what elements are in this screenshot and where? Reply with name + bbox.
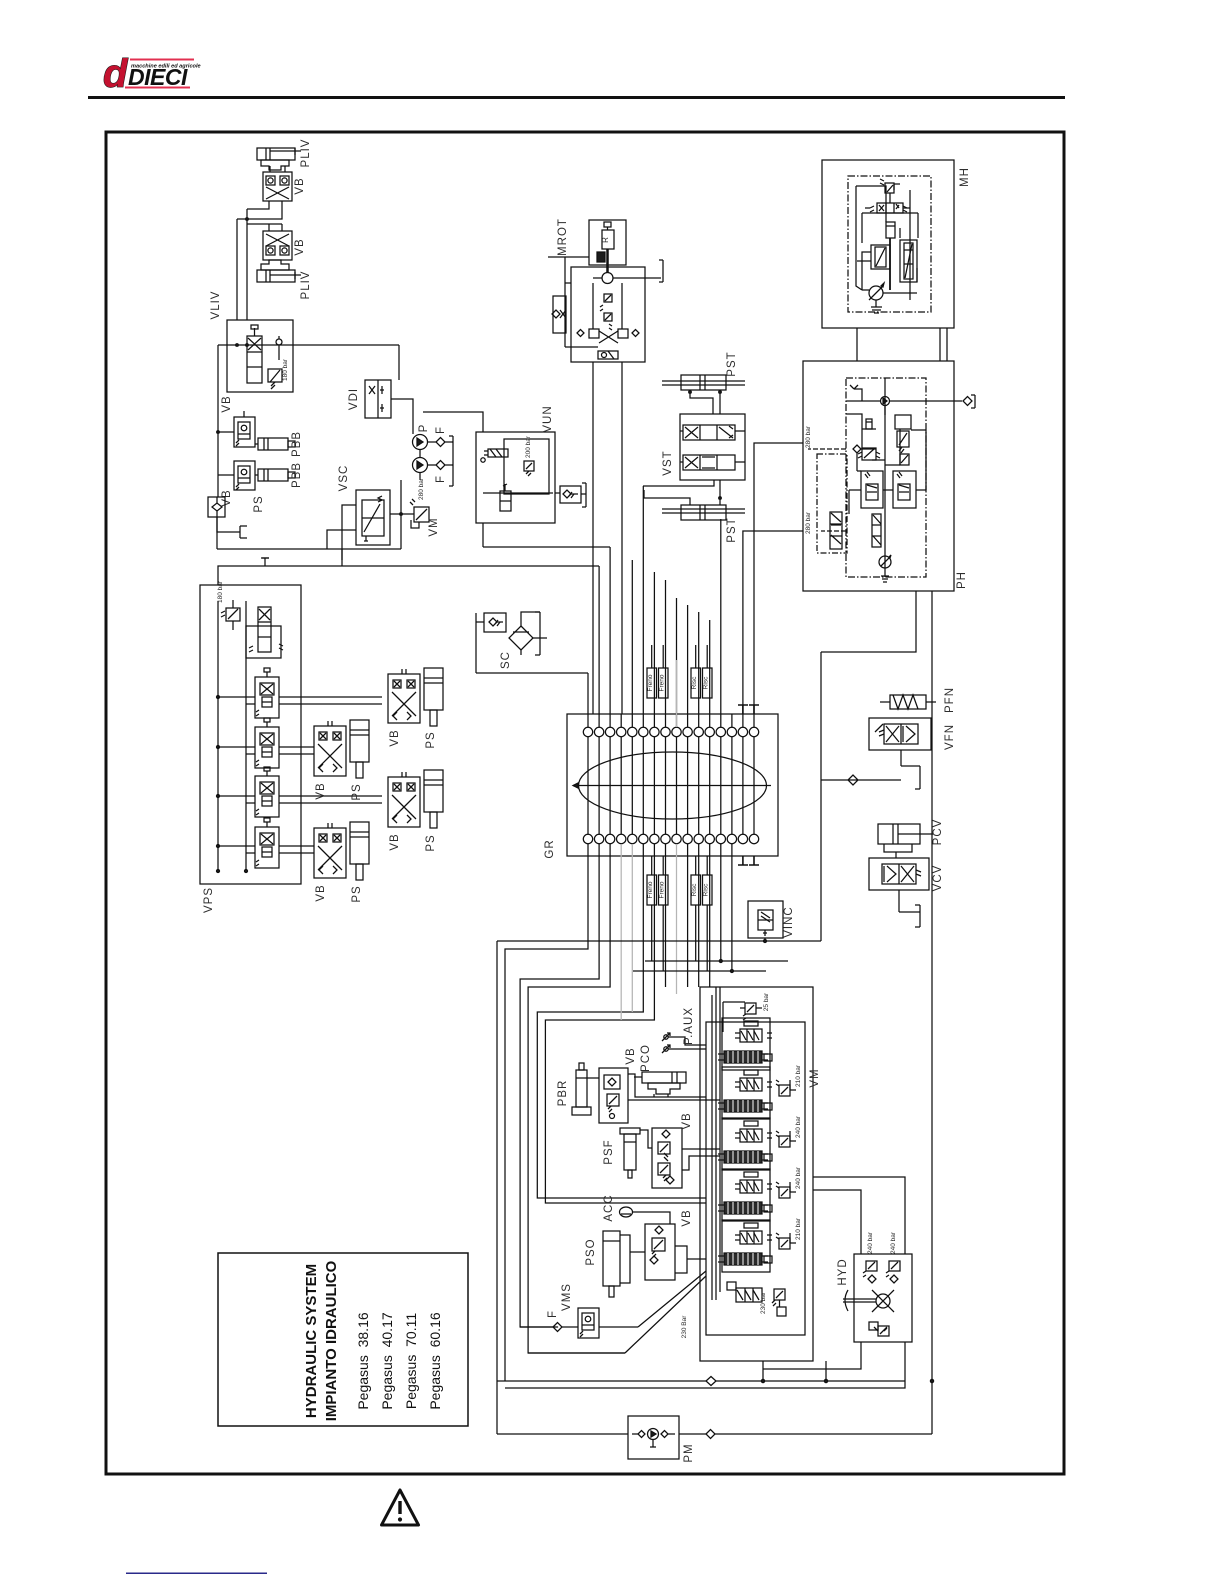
VM section 5 spool <box>718 1253 772 1265</box>
VM section 2 pilot <box>735 1070 772 1091</box>
svg-text:Pegasus 70.11: Pegasus 70.11 <box>403 1313 419 1409</box>
VM section 1 box <box>722 1018 770 1070</box>
svg-text:F: F <box>547 1310 559 1318</box>
GR top ports <box>583 727 758 736</box>
cylinder PCV <box>878 824 933 852</box>
VM section 4 box <box>722 1169 770 1221</box>
wire PSO-VM <box>630 1252 706 1259</box>
wire VFN drain + diamond <box>821 775 901 785</box>
block VUN <box>476 432 555 523</box>
svg-text:VM: VM <box>809 1068 821 1087</box>
svg-text:F: F <box>435 426 447 434</box>
wire check to tank <box>217 517 240 532</box>
svg-text:200 bar: 200 bar <box>525 435 532 458</box>
block MH <box>822 160 954 328</box>
warning triangle <box>382 1490 419 1525</box>
svg-text:PLIV: PLIV <box>300 271 312 300</box>
svg-text:Freno: Freno <box>647 881 654 898</box>
module 1 ports <box>218 697 382 704</box>
wire VUN feed <box>423 412 610 547</box>
filter SC diamond <box>509 620 533 655</box>
valve VB pair B <box>314 721 346 776</box>
svg-text:PST: PST <box>726 517 738 542</box>
module 2 (VPS) <box>255 718 279 768</box>
wire MH to PH <box>857 328 947 361</box>
bracket (SC) <box>535 612 540 655</box>
wire PCO down <box>654 1094 668 1097</box>
T plugs (GR right lines) <box>738 705 759 865</box>
svg-text:PFN: PFN <box>944 687 956 713</box>
valve VB (PBR) <box>599 1068 628 1123</box>
cylinder PBR <box>572 1063 591 1115</box>
cylinder PS pair D <box>350 822 369 880</box>
VM section 1 pilot <box>735 1021 772 1042</box>
svg-text:VB: VB <box>389 729 401 746</box>
svg-text:VB: VB <box>294 177 306 194</box>
svg-text:280 bar: 280 bar <box>418 477 425 500</box>
wire PBB VBs to bus <box>218 432 234 475</box>
svg-text:PCO: PCO <box>640 1044 652 1072</box>
GR bottom ports <box>583 834 758 843</box>
block HYD <box>854 1254 912 1342</box>
svg-text:230 bar: 230 bar <box>760 1291 767 1314</box>
check valve (right of VUN) <box>560 486 581 503</box>
svg-text:PSO: PSO <box>585 1238 597 1265</box>
svg-text:VST: VST <box>662 450 674 475</box>
VM section 3 pilot <box>735 1121 772 1142</box>
svg-text:Pegasus 38.16: Pegasus 38.16 <box>355 1312 371 1410</box>
pump P1 <box>413 435 428 458</box>
wire GR-1 down-left <box>505 844 588 1381</box>
svg-text:VFN: VFN <box>944 724 956 750</box>
module 4 (VPS) <box>255 818 279 868</box>
accumulator ACC <box>620 1207 671 1224</box>
valve VB (PBB upper) <box>234 411 255 447</box>
wire bus verticals to VLIV <box>237 209 247 320</box>
DIECI logo <box>103 52 201 96</box>
valve VB (PBB lower) <box>234 461 255 490</box>
svg-text:VSC: VSC <box>338 465 350 492</box>
svg-text:PM: PM <box>683 1443 695 1462</box>
valve (VPS top) <box>246 607 283 658</box>
wire GR-4 down-left <box>537 844 706 1198</box>
filter SC box <box>484 613 506 632</box>
relief 180bar (VPS) <box>221 600 240 630</box>
svg-text:230 Bar: 230 Bar <box>681 1315 688 1339</box>
svg-text:PCV: PCV <box>932 819 944 846</box>
cylinder PCO <box>634 1072 686 1094</box>
VM section 4 pilot <box>735 1172 772 1193</box>
valve VFN <box>869 718 931 766</box>
cylinder PST upper <box>662 375 745 390</box>
VM relief pair 4 <box>776 1182 796 1198</box>
svg-text:PS: PS <box>253 495 265 512</box>
cylinder PBB lower <box>255 469 295 481</box>
svg-text:VB: VB <box>315 782 327 799</box>
cylinder PSF <box>620 1128 640 1178</box>
svg-text:VDI: VDI <box>348 388 360 410</box>
tag Risc (bottom 1) <box>691 856 701 905</box>
svg-text:PST: PST <box>726 351 738 376</box>
HYD shaft <box>843 1290 876 1311</box>
svg-text:VB: VB <box>315 884 327 901</box>
svg-text:280 bar: 280 bar <box>805 511 812 534</box>
VM end section valve <box>727 1282 762 1302</box>
svg-text:PLIV: PLIV <box>300 139 312 168</box>
bracket (pumps) <box>449 436 453 486</box>
VM relief pair 3 <box>776 1131 796 1147</box>
wire VLIV main line <box>218 345 399 497</box>
valve VB (PSF) <box>652 1128 682 1188</box>
valve VDI <box>365 380 391 418</box>
svg-text:280 bar: 280 bar <box>805 425 812 448</box>
svg-text:PS: PS <box>351 885 363 902</box>
wire GR right feeds <box>633 844 788 971</box>
svg-text:PBR: PBR <box>557 1080 569 1107</box>
svg-text:Risc: Risc <box>691 676 698 689</box>
svg-text:VM: VM <box>428 517 440 536</box>
valve VB pair C <box>388 772 420 827</box>
svg-text:VUN: VUN <box>542 405 554 432</box>
module 4 ports <box>218 846 314 853</box>
schematic frame <box>106 132 1064 1474</box>
svg-text:VPS: VPS <box>203 887 215 913</box>
cylinder PFN <box>880 695 936 709</box>
svg-text:PH: PH <box>956 571 968 589</box>
module 3 (VPS) <box>255 767 279 817</box>
svg-text:VB: VB <box>625 1047 637 1064</box>
bracket (VUN check) <box>555 483 586 507</box>
VM section 4 spool <box>718 1202 772 1214</box>
valve VSC <box>356 490 390 545</box>
svg-text:25 bar: 25 bar <box>763 992 770 1011</box>
valve VB pair D <box>314 823 346 878</box>
svg-text:210 bar: 210 bar <box>795 1064 802 1087</box>
valve VINC <box>748 901 783 938</box>
svg-text:ACC: ACC <box>603 1194 615 1221</box>
wire GR straight downs <box>666 844 710 987</box>
wire VMS line <box>520 1326 638 1328</box>
wire GR-3 down-left <box>528 844 625 1353</box>
port F (VMS) <box>553 1323 562 1332</box>
wire MROT left <box>548 257 598 347</box>
wire HYD bottom <box>763 1342 905 1381</box>
header rule <box>88 96 1065 99</box>
VM section 3 box <box>722 1118 770 1170</box>
svg-text:PBB: PBB <box>291 431 303 457</box>
tag Risc (top 1) <box>691 645 701 698</box>
wire MROT down to GR <box>593 362 622 714</box>
wire bus to VB2 <box>237 224 282 231</box>
VM end relief <box>772 1289 786 1316</box>
svg-text:P: P <box>418 424 430 433</box>
svg-text:VCV: VCV <box>932 865 944 892</box>
svg-text:Pegasus 40.17: Pegasus 40.17 <box>379 1312 395 1410</box>
module 1 (VPS) <box>255 668 279 718</box>
svg-text:VB: VB <box>221 395 233 412</box>
wire PM line <box>497 1433 932 1435</box>
tag Freno (top 1) <box>647 645 657 698</box>
wire VSC-VM relief <box>390 480 414 514</box>
wire GR-2 down-left <box>520 844 599 1327</box>
svg-text:VB: VB <box>681 1209 693 1226</box>
VM section 2 box <box>722 1067 770 1119</box>
diamond F1 <box>428 438 453 447</box>
svg-text:VLIV: VLIV <box>210 291 222 320</box>
wire diagonals to VM <box>528 1271 706 1353</box>
svg-text:Freno: Freno <box>658 881 665 898</box>
bracket (MROT right) <box>659 260 663 282</box>
svg-text:R: R <box>601 237 610 243</box>
valve VB (lower PLIV) <box>263 231 292 260</box>
svg-text:VMS: VMS <box>561 1283 573 1311</box>
tag Freno (bottom 1) <box>647 856 657 905</box>
VM section 3 spool <box>718 1151 772 1163</box>
cylinder PLIV (lower) <box>257 260 301 282</box>
relief 25bar (VM top) <box>740 1003 762 1020</box>
svg-text:Freno: Freno <box>647 674 654 691</box>
wire VCV drain <box>898 890 900 912</box>
motor block MROT main <box>571 267 661 362</box>
check valve block (left of PBB) <box>208 497 225 517</box>
wire VDI to pumps <box>391 399 413 434</box>
valve VMS <box>578 1308 599 1338</box>
svg-text:PS: PS <box>425 731 437 748</box>
svg-text:IMPIANTO IDRAULICO: IMPIANTO IDRAULICO <box>323 1260 340 1421</box>
wire VPS top feed <box>218 549 599 585</box>
valve VB pair A <box>388 669 420 723</box>
tank bracket (PBB) <box>240 526 247 538</box>
tag Freno (bottom 2) <box>659 856 669 905</box>
svg-text:PS: PS <box>351 783 363 800</box>
wire tag continuations <box>652 905 708 971</box>
VM relief pair 2 <box>776 1080 796 1096</box>
VM internal bus <box>712 987 745 1300</box>
cylinder PBB upper <box>255 438 295 450</box>
svg-text:d: d <box>103 52 129 96</box>
svg-text:VB: VB <box>294 238 306 255</box>
wires through GR <box>588 737 754 834</box>
svg-text:PSF: PSF <box>603 1139 615 1164</box>
svg-text:VB: VB <box>221 489 233 506</box>
distributor GR box <box>567 714 778 856</box>
cylinder PS pair B <box>350 720 369 778</box>
wire VSC left ports <box>327 505 356 560</box>
svg-text:Pegasus 60.16: Pegasus 60.16 <box>427 1312 443 1410</box>
svg-text:VB: VB <box>389 833 401 850</box>
title box <box>218 1253 468 1426</box>
footer blue line <box>126 1573 267 1575</box>
wire long horizontal to VINC <box>497 941 821 1434</box>
svg-text:240 bar: 240 bar <box>795 1115 802 1138</box>
diamond F2 <box>428 461 453 470</box>
VM relief pair 5 <box>776 1233 796 1249</box>
wire SC <box>476 612 588 673</box>
wire PH bottom down <box>821 591 932 1434</box>
VM section 1 spool <box>718 1051 772 1063</box>
wire PSF-VM <box>640 1130 720 1170</box>
motor block MROT upper box <box>589 220 626 273</box>
VM section 2 spool <box>718 1100 772 1112</box>
svg-text:VINC: VINC <box>783 906 795 937</box>
wire PH exit left lower <box>743 531 803 705</box>
orifice X (MROT left) <box>552 296 566 333</box>
svg-text:VB: VB <box>681 1112 693 1129</box>
svg-text:GR: GR <box>544 839 556 858</box>
tag Freno (top 2) <box>659 645 669 698</box>
svg-text:PS: PS <box>425 834 437 851</box>
pump P2 <box>413 458 428 481</box>
svg-text:F: F <box>435 475 447 483</box>
svg-text:HYDRAULIC SYSTEM: HYDRAULIC SYSTEM <box>303 1264 320 1418</box>
valve VB (upper PLIV) <box>263 166 292 201</box>
wire PBR-VM <box>587 1074 720 1100</box>
wire VST-PST2 <box>643 480 720 505</box>
wire PST1-VST <box>690 390 720 414</box>
svg-text:HYD: HYD <box>837 1258 849 1285</box>
svg-text:DIECI: DIECI <box>128 64 188 90</box>
wire GR gray lines <box>621 660 676 1020</box>
block VM outer <box>700 987 813 1361</box>
svg-text:240 bar: 240 bar <box>890 1231 897 1254</box>
VM section 5 box <box>722 1220 770 1272</box>
svg-text:SC: SC <box>500 651 512 669</box>
relief VM <box>410 499 429 528</box>
svg-text:MROT: MROT <box>557 218 569 256</box>
wire bottom manifold lines <box>497 1381 905 1388</box>
wire HYD top <box>813 1177 905 1254</box>
tag Risc (top 2) <box>703 645 713 698</box>
svg-text:Risc: Risc <box>702 883 709 896</box>
valve VB (PSO) <box>645 1224 687 1280</box>
svg-text:240 bar: 240 bar <box>795 1166 802 1189</box>
wire VB1 to bus <box>237 201 282 219</box>
cylinder PS pair C <box>424 770 443 828</box>
wires into GR top <box>588 486 754 727</box>
block VLIV <box>227 320 293 392</box>
cylinder PST lower <box>662 505 745 520</box>
module 2 ports <box>218 747 314 754</box>
wire PH exit left upper <box>754 443 803 705</box>
cylinder PSO <box>603 1231 630 1297</box>
svg-text:MH: MH <box>959 167 971 187</box>
module 3 ports <box>218 796 382 803</box>
cylinder PS pair A <box>424 668 443 726</box>
cylinder PLIV (upper) <box>257 148 301 170</box>
ports P.AUX <box>662 1033 706 1053</box>
svg-text:P.AUX: P.AUX <box>683 1007 695 1045</box>
block PH <box>803 361 975 591</box>
block VPS <box>200 585 301 884</box>
valve block VST <box>680 414 745 480</box>
pump PM <box>628 1416 679 1459</box>
svg-text:240 bar: 240 bar <box>867 1231 874 1254</box>
svg-text:180 bar: 180 bar <box>282 358 289 381</box>
wire pump drain <box>217 514 401 549</box>
bracket (VFN) <box>901 766 920 789</box>
svg-text:210 bar: 210 bar <box>795 1217 802 1240</box>
svg-text:Risc: Risc <box>702 676 709 689</box>
svg-text:PBB: PBB <box>291 462 303 488</box>
svg-text:Risc: Risc <box>691 883 698 896</box>
VM section 5 pilot <box>735 1223 772 1244</box>
tag Risc (bottom 2) <box>703 856 713 905</box>
valve VCV <box>869 852 929 890</box>
wire GR-5 down-left <box>545 844 706 1203</box>
svg-text:Freno: Freno <box>658 674 665 691</box>
bracket (VCV) <box>899 905 920 927</box>
bus verticals (VPS) <box>218 601 246 871</box>
